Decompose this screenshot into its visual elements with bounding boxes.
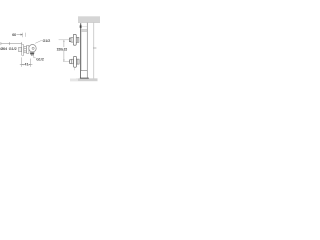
lower valve knob: [70, 60, 72, 64]
valve knob circle: [29, 45, 36, 52]
svg-text:G1/2: G1/2: [9, 47, 17, 51]
floor band fade: [70, 79, 78, 81]
wall line: [86, 23, 88, 78]
upper valve knob: [69, 38, 71, 42]
lower valve mid piece: [71, 59, 73, 64]
foot joint line: [81, 70, 88, 72]
valve side view: escutcheon plate: [22, 44, 24, 56]
foot base line: [80, 77, 89, 79]
svg-text:60: 60: [12, 33, 16, 37]
rail top clamp: [80, 25, 82, 27]
svg-text:41: 41: [24, 63, 28, 67]
rail front line: [80, 23, 82, 78]
svg-text:Ø64: Ø64: [0, 47, 7, 51]
upper valve mid piece: [71, 38, 73, 43]
lower valve extension line: [63, 61, 70, 63]
dimension 60 extension lines: [23, 33, 26, 38]
ceiling grey block: [78, 16, 100, 22]
floor grey band: [70, 79, 98, 82]
vertical dimension line 150: [63, 40, 65, 61]
upper valve plate: [73, 34, 76, 45]
shower arm grey rung: [81, 29, 87, 31]
valve side view: body mid bands: [24, 48, 26, 51]
leader to lower G1/2: [34, 56, 36, 58]
svg-text:150±15: 150±15: [57, 47, 68, 51]
vertical dimension arrows: [63, 40, 64, 61]
upper valve wall piece: [76, 37, 79, 42]
svg-text:G1/2: G1/2: [36, 57, 44, 61]
height dimension tick: [93, 47, 96, 49]
leader to upper G1/2: [35, 40, 42, 43]
upper valve wall piece step: [77, 37, 79, 42]
dimension 41 line with arrows: [20, 64, 33, 66]
lower valve wall piece: [77, 59, 80, 64]
lower valve plate: [74, 56, 77, 67]
height dimension line: [93, 23, 95, 79]
horizontal dimension line with ticks: [1, 42, 22, 45]
dimension 41 text background: [24, 62, 28, 65]
valve side view: body wide section: [27, 46, 29, 54]
rail inner line: [81, 23, 83, 70]
lower valve wall piece step: [77, 59, 79, 64]
text labels layer: [0, 33, 67, 67]
hose stub below lower valve: [73, 67, 75, 70]
upper valve extension line: [59, 39, 70, 41]
slider faint line: [82, 26, 88, 28]
svg-text:G1/2: G1/2: [43, 39, 51, 43]
valve side view: body mid section: [24, 46, 26, 53]
ceiling block bottom edge: [78, 21, 100, 24]
valve side view: wall stub: [19, 47, 22, 51]
background: [0, 0, 100, 100]
outlet tip: [31, 55, 33, 56]
valve knob inner dot: [32, 47, 34, 49]
dimension 41 extension lines: [22, 57, 31, 66]
dimension 60 leader arrow: [17, 34, 23, 35]
outlet below knob: [30, 53, 34, 55]
